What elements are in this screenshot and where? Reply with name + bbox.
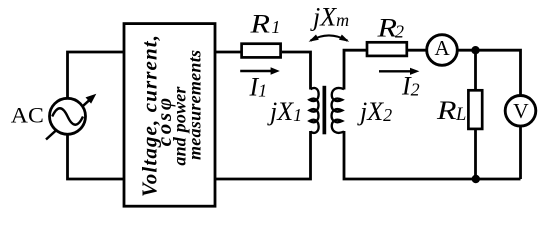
wire: primary bottom <box>215 131 311 179</box>
mutual coupling arrow <box>309 35 350 42</box>
current arrow I2 <box>379 68 419 75</box>
wire: voltmeter bottom <box>519 126 522 179</box>
svg-text:R: R <box>376 14 397 43</box>
resistor R2 <box>367 42 407 56</box>
junction dot top <box>471 46 479 54</box>
measurement box <box>124 24 215 207</box>
resistor R1 <box>242 44 281 58</box>
svg-text:measurements: measurements <box>184 50 204 160</box>
ac source <box>46 94 96 140</box>
junction dot bottom <box>472 175 480 183</box>
svg-text:A: A <box>435 36 451 60</box>
svg-text:2: 2 <box>395 22 404 42</box>
current arrow I1 <box>240 67 280 75</box>
svg-text:L: L <box>455 105 466 125</box>
svg-text:V: V <box>513 99 529 123</box>
wire: AC loop top <box>68 52 125 100</box>
svg-text:R: R <box>436 96 457 125</box>
wire: RL to bottom junction <box>474 129 477 179</box>
voltmeter V <box>505 96 536 127</box>
wire: AC loop bottom <box>68 133 125 179</box>
svg-text:R: R <box>249 10 270 39</box>
svg-text:1: 1 <box>271 17 280 37</box>
wire: box to R1 <box>215 51 241 54</box>
wire: R2 to ammeter <box>407 49 427 52</box>
transformer primary winding jX1 <box>310 88 319 133</box>
measurement box label <box>138 35 205 197</box>
wire: junction to RL <box>474 50 477 90</box>
transformer secondary winding jX2 <box>332 88 344 133</box>
wire: secondary top to R2 <box>344 50 367 89</box>
resistor RL <box>468 90 482 129</box>
ammeter A <box>427 35 458 66</box>
wire: secondary bottom rail <box>344 131 521 179</box>
wire: ammeter to right corner <box>457 50 520 95</box>
transformer core <box>323 86 327 135</box>
wire: R1 to transformer primary <box>282 52 311 90</box>
svg-text:AC: AC <box>11 103 44 128</box>
